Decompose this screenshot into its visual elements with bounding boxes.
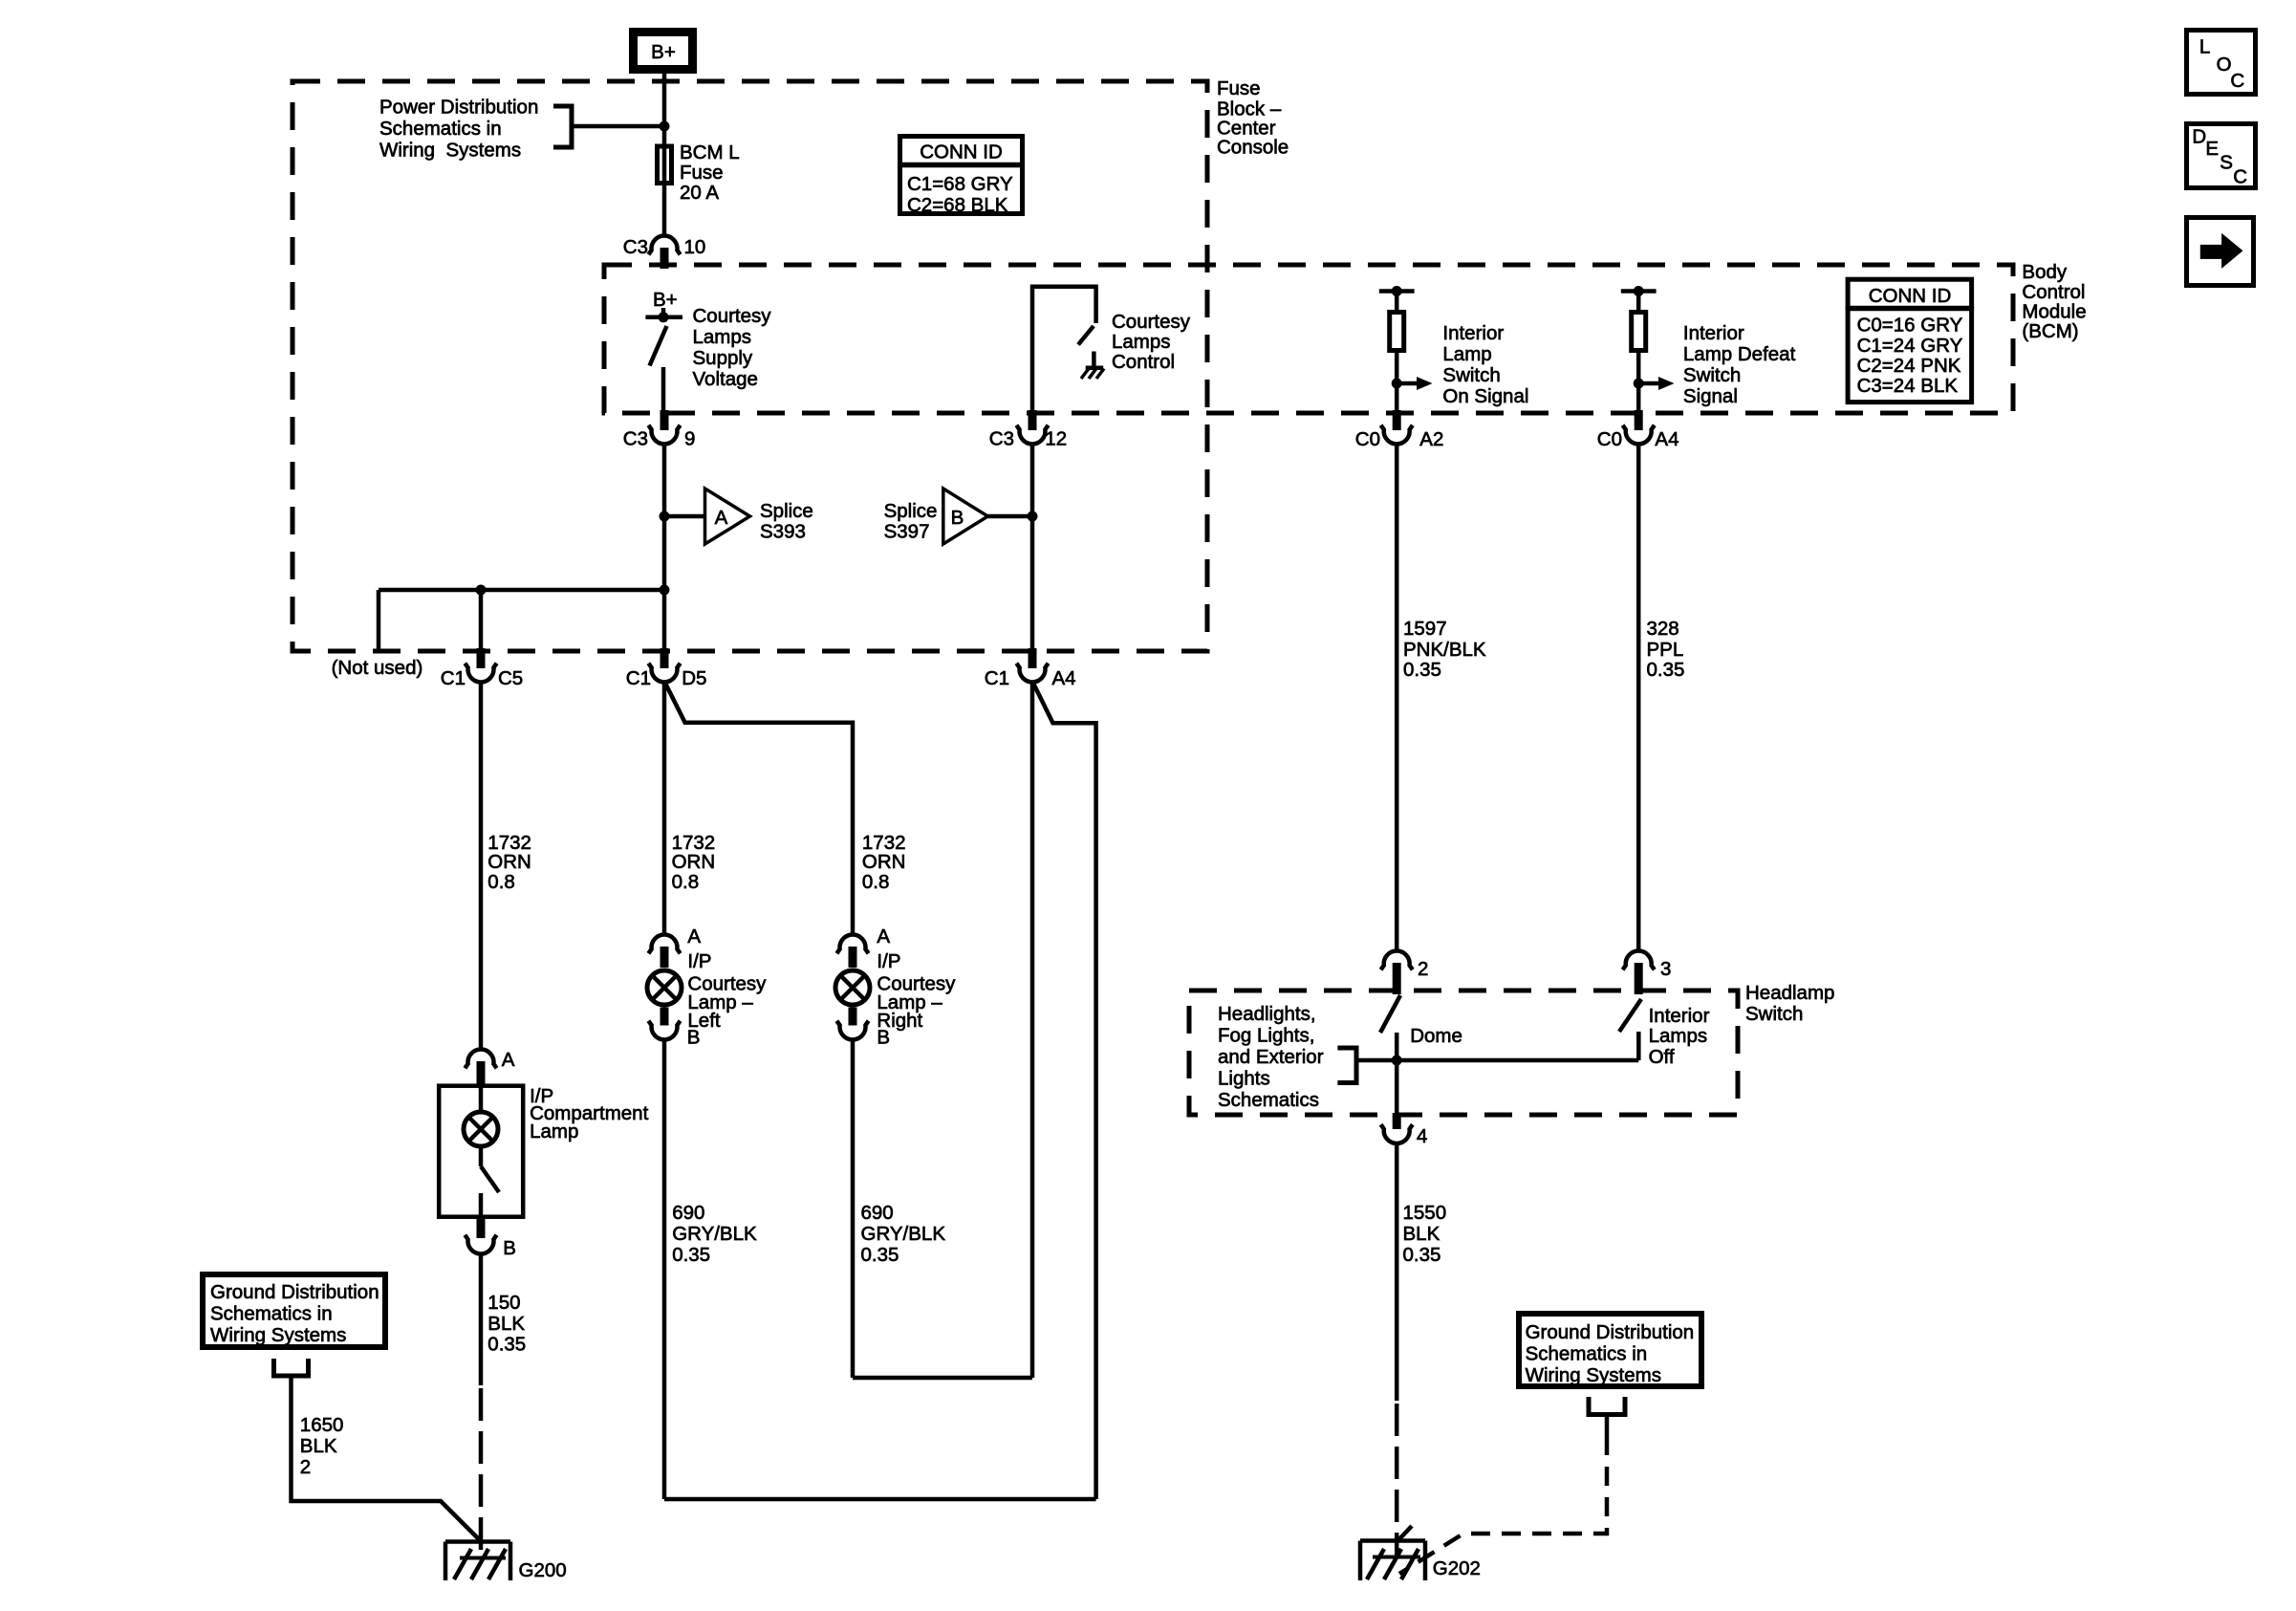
svg-text:690: 690: [861, 1202, 894, 1224]
svg-text:Power Distribution: Power Distribution: [379, 97, 538, 119]
svg-text:2: 2: [300, 1456, 311, 1478]
svg-text:D: D: [2192, 126, 2206, 148]
svg-text:0.35: 0.35: [672, 1244, 710, 1266]
svg-text:On Signal: On Signal: [1442, 385, 1528, 407]
svg-text:BLK: BLK: [487, 1313, 525, 1335]
svg-text:Lamp: Lamp: [1442, 343, 1491, 365]
svg-text:Switch: Switch: [1745, 1003, 1803, 1025]
svg-text:Wiring Systems: Wiring Systems: [210, 1324, 346, 1346]
svg-text:10: 10: [684, 236, 706, 258]
svg-text:Lamp: Lamp: [530, 1121, 578, 1143]
svg-text:0.8: 0.8: [487, 871, 515, 893]
svg-text:S397: S397: [884, 521, 930, 543]
svg-text:Schematics in: Schematics in: [210, 1303, 333, 1325]
svg-text:C1: C1: [441, 667, 466, 689]
svg-text:328: 328: [1647, 618, 1679, 640]
svg-text:Interior: Interior: [1683, 322, 1744, 344]
svg-text:20 A: 20 A: [680, 182, 719, 204]
svg-text:Body: Body: [2022, 261, 2067, 283]
svg-text:Fuse: Fuse: [680, 162, 724, 184]
svg-text:4: 4: [1417, 1125, 1427, 1147]
svg-text:12: 12: [1045, 428, 1067, 450]
svg-text:A: A: [877, 925, 890, 947]
svg-text:A2: A2: [1419, 428, 1443, 450]
svg-text:Wiring Systems: Wiring Systems: [379, 140, 521, 162]
svg-text:C: C: [2233, 166, 2247, 188]
svg-text:Ground Distribution: Ground Distribution: [210, 1281, 379, 1303]
svg-text:GRY/BLK: GRY/BLK: [672, 1223, 757, 1245]
svg-text:C1: C1: [985, 667, 1009, 689]
svg-text:and Exterior: and Exterior: [1218, 1046, 1324, 1068]
svg-text:B+: B+: [651, 41, 676, 63]
svg-text:Dome: Dome: [1410, 1025, 1462, 1047]
svg-text:E: E: [2205, 138, 2219, 160]
svg-text:I/P: I/P: [877, 950, 900, 972]
svg-text:0.35: 0.35: [487, 1334, 526, 1356]
svg-text:B: B: [687, 1027, 701, 1049]
svg-text:CONN ID: CONN ID: [920, 142, 1003, 163]
svg-text:C0: C0: [1355, 428, 1380, 450]
svg-text:Console: Console: [1217, 137, 1289, 159]
svg-text:Supply: Supply: [693, 347, 753, 369]
svg-text:2: 2: [1418, 958, 1428, 980]
svg-text:150: 150: [487, 1292, 520, 1314]
svg-text:1597: 1597: [1403, 618, 1447, 640]
svg-text:BCM L: BCM L: [680, 142, 740, 163]
svg-text:A: A: [687, 925, 701, 947]
svg-text:O: O: [2217, 54, 2232, 76]
svg-text:S393: S393: [760, 521, 806, 543]
svg-text:G200: G200: [519, 1559, 567, 1581]
svg-text:B: B: [877, 1027, 890, 1049]
svg-text:(BCM): (BCM): [2022, 320, 2078, 342]
svg-text:0.35: 0.35: [1647, 659, 1685, 681]
svg-text:D5: D5: [682, 667, 706, 689]
svg-text:I/P: I/P: [687, 950, 711, 972]
svg-text:G202: G202: [1433, 1557, 1481, 1579]
svg-text:C3=24 BLK: C3=24 BLK: [1857, 375, 1959, 397]
svg-text:Schematics in: Schematics in: [379, 118, 502, 140]
svg-text:C3: C3: [623, 428, 648, 450]
svg-text:ORN: ORN: [672, 851, 716, 873]
svg-text:Off: Off: [1649, 1046, 1675, 1068]
svg-text:0.8: 0.8: [862, 871, 890, 893]
svg-text:C5: C5: [498, 667, 523, 689]
svg-text:C1=24 GRY: C1=24 GRY: [1857, 335, 1963, 357]
svg-text:Interior: Interior: [1649, 1005, 1710, 1027]
svg-text:PPL: PPL: [1647, 639, 1684, 661]
svg-text:B+: B+: [653, 289, 678, 311]
svg-text:Wiring Systems: Wiring Systems: [1526, 1364, 1661, 1386]
svg-text:GRY/BLK: GRY/BLK: [861, 1223, 946, 1245]
svg-text:Signal: Signal: [1683, 385, 1738, 407]
svg-text:3: 3: [1660, 958, 1671, 980]
svg-text:Schematics: Schematics: [1218, 1089, 1319, 1111]
svg-text:C1: C1: [626, 667, 651, 689]
svg-text:Lamps: Lamps: [1649, 1025, 1708, 1047]
svg-text:BLK: BLK: [300, 1435, 337, 1457]
svg-text:C1=68 GRY: C1=68 GRY: [907, 173, 1013, 195]
svg-text:1550: 1550: [1403, 1202, 1447, 1224]
svg-text:0.35: 0.35: [861, 1244, 899, 1266]
svg-text:Fog Lights,: Fog Lights,: [1218, 1025, 1314, 1047]
svg-text:L: L: [2199, 36, 2210, 58]
svg-text:Lamps: Lamps: [1112, 331, 1171, 353]
svg-text:Lamps: Lamps: [693, 326, 752, 348]
svg-text:S: S: [2220, 152, 2233, 174]
svg-text:PNK/BLK: PNK/BLK: [1403, 639, 1486, 661]
svg-text:A4: A4: [1655, 428, 1679, 450]
svg-text:C: C: [2230, 70, 2244, 92]
svg-text:Switch: Switch: [1683, 364, 1741, 386]
svg-text:Switch: Switch: [1442, 364, 1500, 386]
svg-text:C3: C3: [623, 236, 648, 258]
svg-text:A4: A4: [1052, 667, 1076, 689]
svg-text:0.35: 0.35: [1403, 659, 1441, 681]
svg-text:C2=24 PNK: C2=24 PNK: [1857, 355, 1961, 377]
svg-text:C3: C3: [989, 428, 1014, 450]
svg-text:Splice: Splice: [884, 500, 938, 522]
svg-text:9: 9: [684, 428, 695, 450]
svg-text:1650: 1650: [300, 1414, 344, 1436]
svg-text:C2=68 BLK: C2=68 BLK: [907, 194, 1008, 216]
svg-text:Ground Distribution: Ground Distribution: [1526, 1321, 1695, 1343]
svg-text:BLK: BLK: [1403, 1223, 1440, 1245]
svg-text:CONN ID: CONN ID: [1869, 285, 1952, 307]
svg-text:0.35: 0.35: [1403, 1244, 1441, 1266]
svg-text:C0: C0: [1597, 428, 1622, 450]
svg-text:(Not used): (Not used): [332, 657, 423, 679]
svg-text:Lights: Lights: [1218, 1068, 1270, 1090]
svg-text:C0=16 GRY: C0=16 GRY: [1857, 315, 1963, 337]
svg-text:Courtesy: Courtesy: [1112, 311, 1191, 333]
svg-text:ORN: ORN: [862, 851, 906, 873]
svg-text:Splice: Splice: [760, 500, 813, 522]
svg-text:Fuse: Fuse: [1217, 77, 1261, 99]
svg-text:690: 690: [672, 1202, 704, 1224]
svg-text:A: A: [502, 1049, 515, 1071]
svg-text:0.8: 0.8: [672, 871, 700, 893]
svg-text:Interior: Interior: [1442, 322, 1504, 344]
svg-text:A: A: [715, 507, 728, 529]
svg-text:B: B: [951, 507, 964, 529]
svg-text:B: B: [503, 1237, 516, 1259]
svg-text:Courtesy: Courtesy: [693, 305, 772, 327]
svg-text:Headlights,: Headlights,: [1218, 1003, 1316, 1025]
svg-text:Lamp Defeat: Lamp Defeat: [1683, 343, 1796, 365]
svg-text:ORN: ORN: [487, 851, 531, 873]
svg-text:Voltage: Voltage: [693, 368, 758, 390]
svg-text:Headlamp: Headlamp: [1745, 982, 1834, 1004]
svg-text:Schematics in: Schematics in: [1526, 1343, 1648, 1365]
svg-text:Control: Control: [1112, 351, 1175, 373]
